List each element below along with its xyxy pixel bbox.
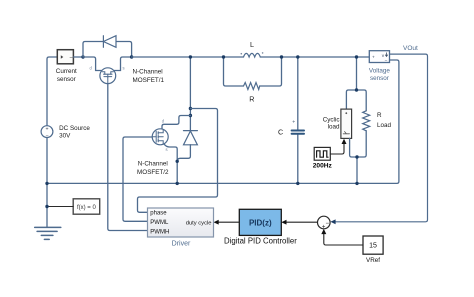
wire sum to PID: [286, 221, 318, 223]
wire gate Q2 to PWML: [123, 137, 152, 221]
wire phase loop: [138, 109, 218, 213]
svg-text:Driver: Driver: [172, 240, 191, 247]
label DC Source 30V: [59, 125, 90, 139]
svg-text:d: d: [90, 66, 93, 71]
node drain tap junction: [189, 114, 192, 117]
svg-text:Cyclic: Cyclic: [323, 116, 340, 123]
label Current sensor: [56, 68, 77, 83]
svg-text:R: R: [377, 112, 382, 119]
svg-text:L: L: [250, 40, 254, 49]
svg-text:VOut: VOut: [403, 45, 418, 52]
node L left junction: [222, 55, 225, 58]
node load top junction: [355, 55, 358, 58]
svg-text:PID(z): PID(z): [249, 218, 272, 227]
inductor L: [244, 53, 261, 57]
PID controller block: [239, 209, 281, 235]
node load split junction: [355, 88, 358, 91]
node ground rail junction: [45, 182, 48, 185]
svg-text:−: −: [69, 55, 73, 61]
node phase tap junction: [189, 107, 192, 110]
label R Load: [377, 112, 392, 129]
wire MOSFET Q1 branch: [83, 57, 132, 71]
wire f(x)=0 to rail: [47, 206, 73, 208]
wire switch node vertical: [189, 57, 191, 130]
wire VRef to sum: [324, 234, 363, 245]
svg-text:+: +: [45, 126, 48, 132]
wire load branch top: [346, 57, 366, 111]
current sensor: [57, 50, 73, 64]
transistor Q2 N-Channel MOSFET/2: [152, 129, 168, 145]
VRef constant block: [363, 236, 383, 254]
diode D1: [103, 36, 116, 48]
diode D1 freewheel loop wire: [83, 42, 132, 58]
diode D2 body diode: [177, 131, 197, 162]
svg-text:C: C: [278, 128, 283, 137]
wire PID to Driver: [218, 221, 240, 223]
node M2 source rail junction: [176, 182, 179, 185]
arrow into cyclic load: [342, 139, 347, 144]
pin marks L: [241, 52, 264, 54]
arrow into PID: [281, 220, 286, 225]
node B junction: [130, 55, 133, 58]
arrow VRef into sum: [321, 229, 326, 234]
svg-text:30V: 30V: [59, 133, 71, 140]
svg-text:duty cycle: duty cycle: [186, 220, 212, 226]
wire load branch bottom: [350, 131, 367, 184]
svg-text:+: +: [372, 56, 375, 61]
svg-text:R: R: [249, 94, 254, 103]
wire current sensor to node A: [73, 56, 83, 58]
svg-text:15: 15: [369, 243, 377, 250]
svg-text:−: −: [325, 221, 329, 227]
solver config f(x)=0: [73, 199, 100, 214]
svg-text:s: s: [123, 66, 125, 71]
sum block: [318, 216, 331, 230]
node L right junction: [280, 55, 283, 58]
svg-text:−: −: [385, 59, 388, 64]
label Cyclic load: [323, 116, 340, 130]
svg-text:PWMH: PWMH: [150, 229, 169, 235]
transistor Q1 N-Channel MOSFET/1: [100, 68, 116, 84]
label Voltage sensor: [369, 68, 391, 83]
voltage sensor: [369, 51, 389, 65]
node load merge junction: [355, 155, 358, 158]
svg-text:d: d: [162, 119, 165, 124]
svg-text:phase: phase: [150, 211, 167, 217]
svg-text:−: −: [45, 133, 48, 139]
cyclic load block: [341, 109, 352, 138]
node C top junction: [296, 55, 299, 58]
svg-text:VRef: VRef: [366, 257, 380, 264]
svg-text:Digital PID Controller: Digital PID Controller: [224, 236, 297, 245]
svg-text:N-Channel: N-Channel: [133, 68, 163, 75]
svg-text:sensor: sensor: [370, 75, 389, 82]
svg-text:N-Channel: N-Channel: [138, 161, 168, 168]
node f(x) junction: [45, 205, 48, 208]
wire top rail: [132, 56, 370, 58]
wire source Q2: [165, 145, 178, 184]
node switch junction: [189, 55, 192, 58]
svg-text:PWML: PWML: [150, 220, 169, 226]
wire left rail: [47, 57, 57, 227]
arrow into sum: [330, 219, 335, 224]
node A junction: [81, 55, 84, 58]
svg-text:200Hz: 200Hz: [313, 162, 333, 169]
wire bottom rail: [47, 60, 399, 183]
pulse generator 200Hz: [314, 147, 330, 160]
svg-text:s: s: [166, 147, 168, 152]
svg-text:load: load: [328, 123, 340, 130]
resistor R (parallel with L): [244, 83, 260, 90]
node load rail junction: [355, 182, 358, 185]
Driver block: [148, 208, 214, 237]
ground: [35, 227, 61, 239]
svg-text:sensor: sensor: [57, 76, 76, 83]
wire parallel R branch: [224, 57, 282, 86]
arrow into Driver: [214, 220, 219, 225]
DC source V1: [41, 126, 53, 138]
svg-text:Current: Current: [56, 68, 77, 75]
svg-text:f(x) = 0: f(x) = 0: [77, 205, 97, 211]
capacitor C: [292, 57, 304, 183]
svg-text:Voltage: Voltage: [369, 68, 391, 75]
svg-text:DC Source: DC Source: [59, 125, 90, 132]
svg-text:MOSFET/1: MOSFET/1: [133, 77, 165, 84]
label N-Channel MOSFET/2: [137, 161, 169, 177]
wire 200Hz to cyclic load: [330, 144, 344, 155]
node C bottom junction: [296, 182, 299, 185]
wire VOut feedback: [335, 54, 428, 222]
node source junction: [176, 160, 179, 163]
svg-text:MOSFET/2: MOSFET/2: [137, 169, 169, 176]
svg-text:+: +: [292, 120, 295, 126]
label N-Channel MOSFET/1: [133, 68, 165, 84]
wire drain Q2: [162, 116, 190, 129]
svg-text:Load: Load: [377, 122, 392, 129]
resistor R Load: [363, 111, 370, 131]
wire gate Q1 to PWMH: [108, 84, 148, 231]
